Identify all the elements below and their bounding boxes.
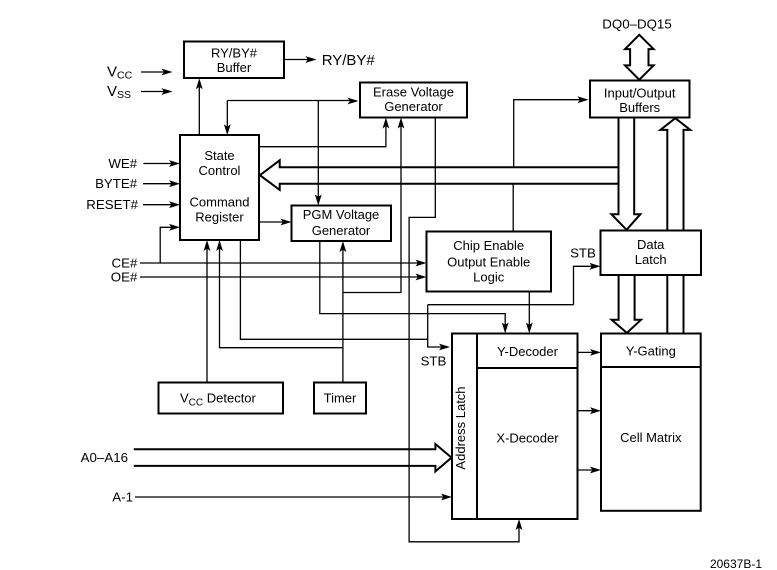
wire CE# branch to state control bbox=[160, 227, 174, 263]
wire A-1 bbox=[135, 496, 446, 498]
bus open arrow into state control bbox=[260, 160, 619, 190]
wire erase generator output feedback loop bbox=[409, 118, 519, 542]
arrowhead into erase bottom from state control bbox=[383, 118, 390, 129]
label Chip Enable Output Enable Logic bbox=[447, 238, 530, 285]
arrowhead into PGM left bbox=[281, 219, 292, 226]
svg-text:Generator: Generator bbox=[312, 223, 371, 238]
svg-text:Register: Register bbox=[195, 210, 244, 225]
svg-text:Cell Matrix: Cell Matrix bbox=[620, 430, 682, 445]
wire X-decoder to cell matrix lower bbox=[578, 469, 596, 471]
svg-text:PGM Voltage: PGM Voltage bbox=[303, 207, 380, 222]
arrowhead into state control top bbox=[224, 124, 231, 135]
wire timer to PGM bottom bbox=[342, 247, 344, 383]
wire X-decoder to cell matrix upper bbox=[578, 410, 596, 412]
arrowhead STB into address latch bbox=[439, 344, 450, 351]
label Cell Matrix bbox=[620, 430, 682, 445]
wire RESET# bbox=[143, 204, 174, 206]
svg-text:STB: STB bbox=[570, 246, 596, 261]
arrowhead into PGM top bbox=[315, 195, 322, 206]
svg-text:A-1: A-1 bbox=[112, 490, 133, 505]
wire OE# bbox=[140, 276, 421, 278]
wire RY/BY# output bbox=[284, 59, 310, 61]
wire STB drop to address latch bbox=[428, 305, 444, 347]
label CE# bbox=[112, 256, 138, 271]
wire state control to RY/BY# buffer bbox=[198, 84, 200, 135]
label Erase Voltage Generator bbox=[373, 85, 454, 115]
arrowhead WE# bbox=[169, 160, 180, 167]
label RY/BY# output bbox=[322, 52, 376, 69]
wire STB horizontal under chip enable bbox=[428, 304, 574, 306]
arrowhead CE# into chip enable bbox=[416, 260, 427, 267]
svg-text:Y-Gating: Y-Gating bbox=[626, 344, 676, 359]
label Input/Output Buffers bbox=[604, 86, 676, 116]
arrowhead VCC detector into state control bbox=[204, 240, 211, 251]
block Chip Enable Output Enable Logic bbox=[427, 232, 552, 292]
svg-text:Output Enable: Output Enable bbox=[447, 255, 530, 270]
svg-text:Logic: Logic bbox=[473, 270, 505, 285]
arrowhead into I/O buffers left bbox=[578, 96, 589, 103]
open arrow Y-gating to I/O buffers bbox=[660, 118, 690, 333]
wire bus to input/output buffers bbox=[514, 100, 582, 167]
arrowhead Y-decoder into Y-gating bbox=[590, 349, 601, 356]
label X-Decoder bbox=[496, 431, 559, 446]
label Y-Gating bbox=[626, 344, 676, 359]
label A0-A16 bbox=[81, 450, 128, 465]
label STB near address latch bbox=[421, 354, 447, 369]
label A-1 bbox=[112, 490, 133, 505]
svg-text:Latch: Latch bbox=[635, 252, 667, 267]
wire Y-decoder to Y-gating bbox=[578, 351, 596, 353]
svg-text:Timer: Timer bbox=[324, 391, 357, 406]
arrowhead A-1 into address latch bbox=[441, 494, 452, 501]
label State Control Command Register bbox=[190, 148, 250, 225]
arrowhead X-decoder into cell matrix lower bbox=[590, 467, 601, 474]
block Y-Gating / Cell Matrix bbox=[601, 334, 701, 511]
label PGM Voltage Generator bbox=[303, 207, 380, 238]
svg-text:DQ0–DQ15: DQ0–DQ15 bbox=[602, 17, 671, 32]
arrowhead PGM into Y-decoder top bbox=[502, 323, 509, 334]
svg-text:Command: Command bbox=[190, 195, 250, 210]
svg-text:20637B-1: 20637B-1 bbox=[710, 557, 762, 570]
label RY/BY# Buffer bbox=[211, 46, 258, 76]
label RESET# bbox=[86, 197, 138, 212]
label BYTE# bbox=[95, 176, 138, 191]
arrowhead timer into state control bottom bbox=[216, 240, 223, 251]
svg-text:STB: STB bbox=[421, 354, 447, 369]
wire bus to chip enable top bbox=[512, 185, 514, 232]
wire VCC detector to state control bottom bbox=[206, 246, 208, 383]
wire CE# bbox=[140, 262, 421, 264]
block Erase Voltage Generator bbox=[360, 83, 467, 118]
wire state control to PGM left bbox=[259, 221, 286, 223]
label STB near data latch bbox=[570, 246, 596, 261]
svg-text:Y-Decoder: Y-Decoder bbox=[497, 344, 559, 359]
open arrow data latch to Y-gating bbox=[612, 275, 641, 333]
label Timer bbox=[324, 391, 357, 406]
block Address Latch / Y-Decoder / X-Decoder bbox=[452, 334, 578, 520]
arrowhead into RY/BY# buffer bottom bbox=[196, 78, 203, 89]
block Timer bbox=[314, 383, 366, 414]
label VSS bbox=[107, 83, 131, 101]
wire STB riser to data latch bbox=[574, 266, 595, 304]
wire chip enable bottom to Y-decoder top bbox=[528, 292, 530, 328]
arrowhead chip enable into Y-decoder top bbox=[526, 323, 533, 334]
block VCC Detector bbox=[159, 383, 284, 414]
wire timer branch to state control bottom bbox=[220, 246, 343, 348]
wire net drop into state control top bbox=[226, 101, 228, 130]
svg-text:A0–A16: A0–A16 bbox=[81, 450, 128, 465]
arrowhead X-decoder into cell matrix upper bbox=[590, 407, 601, 414]
arrowhead into erase generator left bbox=[348, 98, 359, 105]
arrowhead RY/BY# output bbox=[306, 56, 317, 63]
label figure number 20637B-1 bbox=[710, 557, 762, 570]
svg-text:RESET#: RESET# bbox=[86, 197, 138, 212]
svg-text:X-Decoder: X-Decoder bbox=[496, 431, 559, 446]
wire VCC arrow bbox=[141, 71, 166, 73]
wire state control to erase generator bottom bbox=[259, 124, 386, 147]
svg-text:Buffers: Buffers bbox=[619, 100, 660, 115]
block State Control / Command Register bbox=[180, 135, 259, 240]
block Input/Output Buffers bbox=[590, 81, 690, 118]
svg-text:Data: Data bbox=[637, 237, 665, 252]
arrowhead OE# into chip enable bbox=[416, 274, 427, 281]
svg-text:RY/BY#: RY/BY# bbox=[322, 52, 376, 69]
wire BYTE# bbox=[143, 183, 174, 185]
label OE# bbox=[111, 270, 138, 285]
svg-text:Address Latch: Address Latch bbox=[453, 386, 468, 469]
arrowhead STB into data latch bbox=[590, 263, 601, 270]
svg-text:Erase Voltage: Erase Voltage bbox=[373, 85, 454, 100]
arrowhead VSS bbox=[162, 88, 173, 95]
arrowhead feedback into address latch bottom bbox=[516, 519, 523, 530]
svg-text:WE#: WE# bbox=[108, 156, 137, 171]
wire VSS arrow bbox=[141, 91, 166, 93]
arrowhead timer into PGM bottom bbox=[340, 241, 347, 252]
label DQ0-DQ15 bbox=[602, 17, 671, 32]
label Data Latch bbox=[635, 237, 667, 267]
arrowhead BYTE# bbox=[169, 180, 180, 187]
wire net to erase/pgm/state (horizontal) bbox=[227, 100, 352, 102]
arrowhead RESET# bbox=[169, 201, 180, 208]
svg-text:Buffer: Buffer bbox=[217, 60, 252, 75]
svg-text:Chip Enable: Chip Enable bbox=[453, 238, 524, 253]
label VCC bbox=[107, 64, 133, 82]
label WE# bbox=[108, 156, 137, 171]
A0-A16 open arrow into address latch bbox=[134, 444, 452, 471]
svg-text:State: State bbox=[204, 148, 234, 163]
wire net drop into PGM top bbox=[317, 101, 319, 200]
svg-text:RY/BY#: RY/BY# bbox=[211, 46, 258, 61]
wire PGM output to Y-decoder top bbox=[320, 241, 505, 328]
label Address Latch (rotated) bbox=[453, 386, 468, 469]
block RY/BY# Buffer bbox=[184, 42, 284, 79]
svg-text:OE#: OE# bbox=[111, 270, 138, 285]
wire timer branch to erase generator bottom bbox=[343, 124, 401, 293]
svg-text:Generator: Generator bbox=[384, 99, 443, 114]
svg-text:Control: Control bbox=[199, 163, 241, 178]
DQ0-DQ15 double open arrow bbox=[625, 35, 654, 80]
block Data Latch bbox=[601, 231, 702, 276]
label Y-Decoder bbox=[497, 344, 559, 359]
svg-text:CE#: CE# bbox=[112, 256, 138, 271]
label VCC Detector bbox=[180, 391, 257, 409]
open arrow I/O buffers to data latch bbox=[611, 118, 640, 230]
svg-text:BYTE#: BYTE# bbox=[95, 176, 138, 191]
arrowhead CE# into state control bbox=[169, 224, 180, 231]
wire WE# bbox=[143, 163, 174, 165]
arrowhead VCC bbox=[162, 69, 173, 76]
svg-text:Input/Output: Input/Output bbox=[604, 86, 676, 101]
block PGM Voltage Generator bbox=[292, 206, 392, 242]
arrowhead timer branch into erase bottom bbox=[398, 118, 405, 129]
wire state control bottom to STB vertical bbox=[240, 240, 427, 339]
